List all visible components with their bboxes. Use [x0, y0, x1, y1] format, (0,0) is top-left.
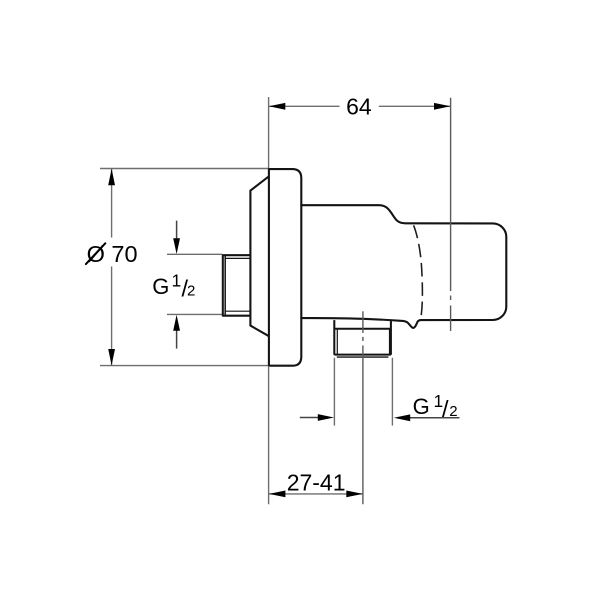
- diameter slash extension: [86, 243, 105, 264]
- extension line left of outlet: [333, 358, 335, 426]
- wall inlet stub G1/2 outline: [223, 255, 251, 316]
- arrowhead top of D70: [108, 169, 115, 185]
- svg-text:1: 1: [172, 271, 182, 291]
- outlet centerline (dash-dot) x=362.9: [362, 311, 364, 504]
- outlet thread root right: [389, 329, 391, 355]
- outlet stub left edge: [333, 320, 335, 355]
- outlet collar line: [334, 328, 391, 330]
- extension line top: [100, 168, 269, 170]
- dim line 27-41: [269, 493, 363, 495]
- dim line D70 upper segment: [111, 169, 113, 238]
- dim line 64 left segment: [269, 105, 339, 107]
- svg-text:G: G: [152, 274, 169, 299]
- label G 1/2 left: [152, 271, 195, 302]
- dim line 64 right segment: [379, 105, 450, 107]
- main body outline: [301, 205, 506, 328]
- upper arrow leader: [176, 221, 178, 240]
- extension line left (wall plane): [268, 366, 270, 504]
- outlet stub right edge: [390, 320, 392, 355]
- outlet thread root left: [336, 329, 338, 355]
- arrowhead bottom of D70: [108, 349, 115, 365]
- svg-text:G: G: [413, 394, 430, 419]
- left leader line: [300, 417, 319, 419]
- escutcheon flange (wall plate, side view): [269, 169, 301, 366]
- dim line D70 lower segment: [111, 267, 113, 366]
- arrowhead right of 64: [434, 103, 450, 110]
- extension line left (wall plane x=268.6): [268, 97, 270, 169]
- lower extension line: [167, 313, 222, 315]
- upper arrowhead (down): [173, 238, 180, 254]
- lower arrowhead (up): [173, 315, 180, 331]
- holder centerline (dash-dot) x=450.6: [450, 98, 452, 331]
- svg-text:/: /: [442, 396, 449, 422]
- inlet stub thread root top: [225, 257, 250, 259]
- arrowhead left of 64: [269, 103, 285, 110]
- right arrowhead (left): [394, 414, 410, 421]
- right leader line: [409, 417, 460, 419]
- svg-text:2: 2: [187, 283, 195, 300]
- svg-text:64: 64: [346, 94, 372, 120]
- label G 1/2 bottom: [413, 391, 458, 422]
- inlet stub thread root bottom: [225, 310, 250, 312]
- outlet bottom edge: [334, 354, 391, 356]
- svg-text:2: 2: [449, 403, 457, 420]
- extension line bottom: [100, 365, 269, 367]
- hidden edge of holder cone (dashed): [414, 225, 423, 318]
- arrowhead left of 27-41: [269, 491, 285, 498]
- svg-text:27-41: 27-41: [287, 470, 346, 496]
- arrowhead right of 27-41: [346, 491, 362, 498]
- upper extension line: [167, 253, 222, 255]
- inlet stub thread chamfer line: [224, 255, 226, 315]
- lower arrow leader: [176, 330, 178, 349]
- extension line right of outlet: [391, 358, 393, 426]
- outlet chamfer line: [337, 356, 389, 358]
- escutcheon front face taper: [250, 177, 268, 336]
- left arrowhead (right): [318, 414, 334, 421]
